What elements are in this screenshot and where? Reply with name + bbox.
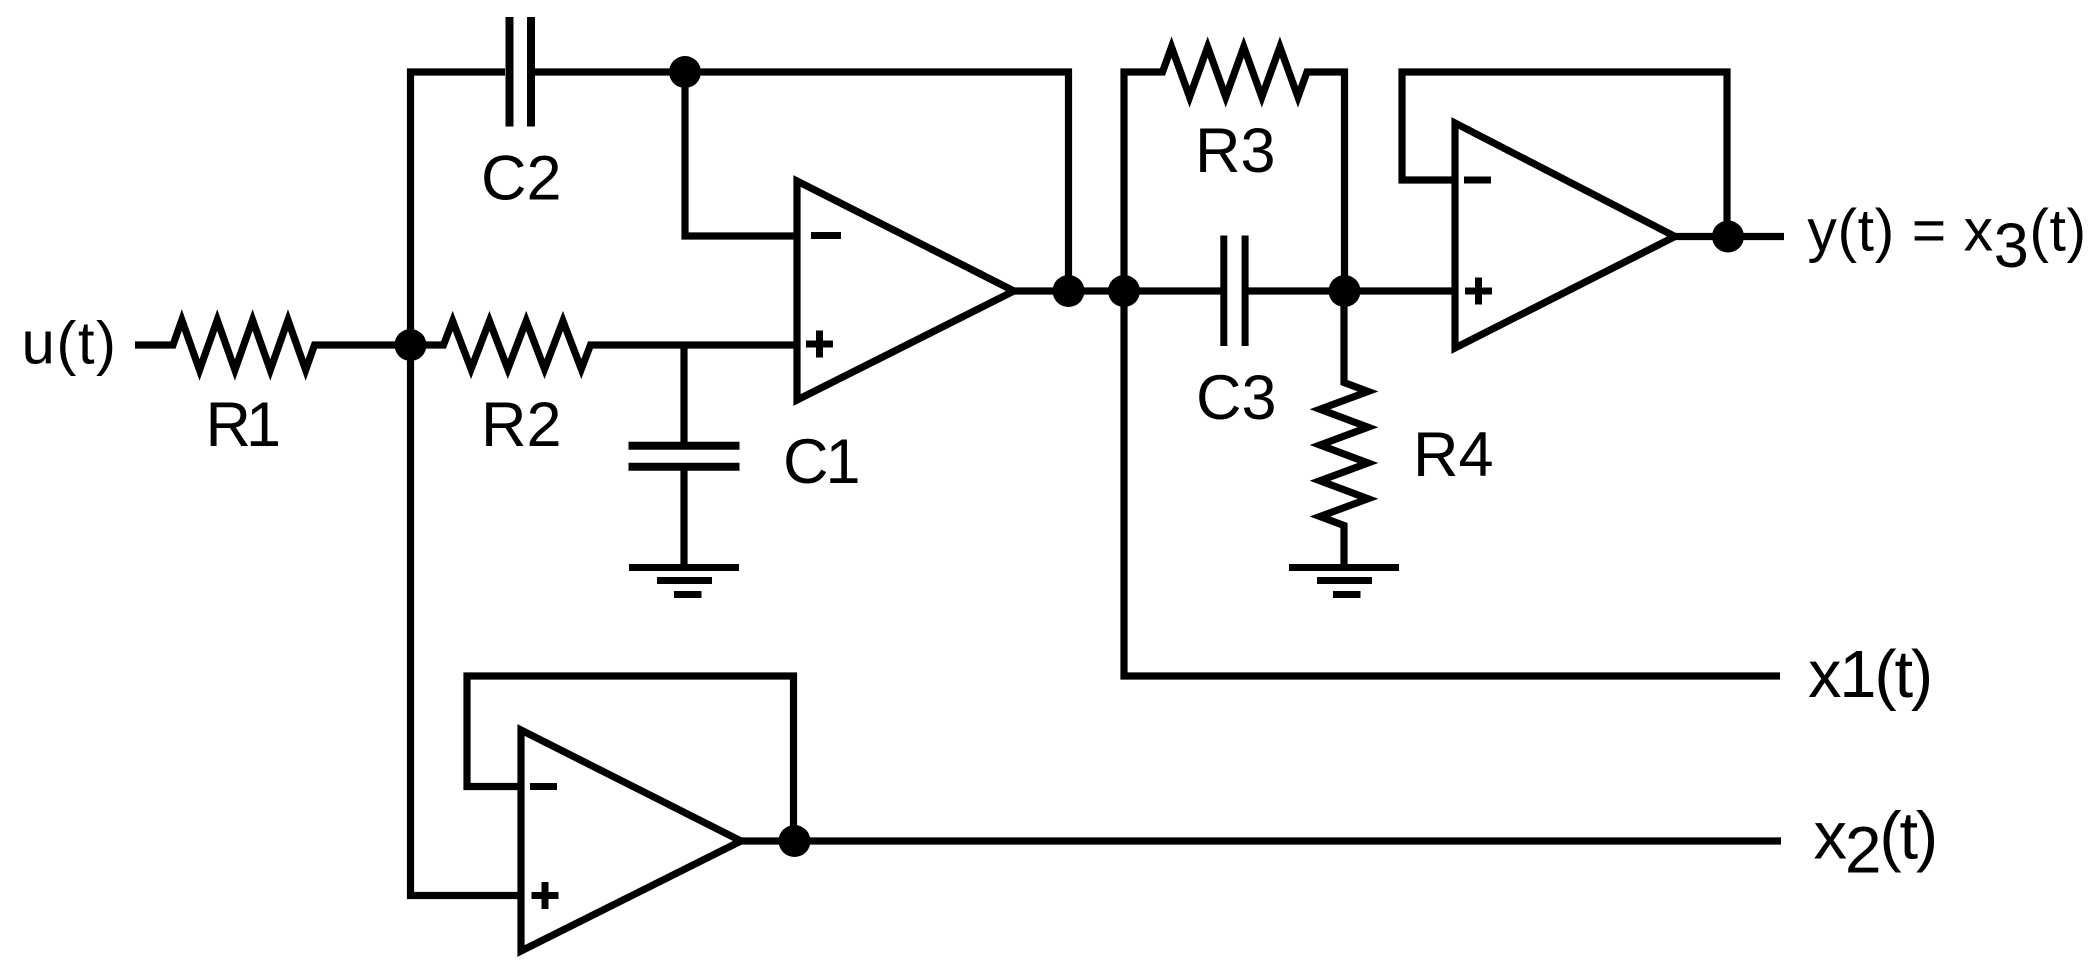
svg-text:C1: C1: [783, 427, 861, 497]
svg-text:x2(t): x2(t): [1814, 799, 1936, 887]
svg-text:R1: R1: [206, 390, 282, 460]
svg-text:R4: R4: [1413, 420, 1494, 490]
svg-text:C3: C3: [1196, 363, 1277, 433]
svg-text:u(t): u(t): [22, 310, 118, 377]
svg-text:R2: R2: [481, 390, 562, 460]
svg-text:R3: R3: [1195, 116, 1276, 186]
svg-text:x1(t): x1(t): [1808, 637, 1931, 712]
svg-text:C2: C2: [481, 144, 562, 214]
